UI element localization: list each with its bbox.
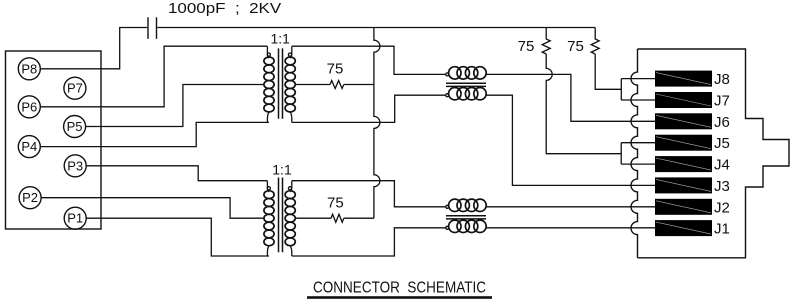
resistor R4 75 [331, 214, 344, 222]
svg-text:1:1: 1:1 [272, 162, 292, 178]
svg-text:J5: J5 [714, 135, 730, 152]
svg-text:1000pF ; 2KV: 1000pF ; 2KV [168, 1, 282, 17]
svg-text:J7: J7 [714, 93, 730, 110]
transformer T2 [264, 178, 295, 257]
contact J5 [655, 135, 730, 153]
choke L1 common mode [446, 67, 486, 100]
label R4 value 75 [327, 195, 344, 212]
wire R3 to center tap rail [344, 84, 374, 86]
pin P3 [64, 155, 86, 177]
svg-text:75: 75 [327, 195, 344, 212]
svg-text:CONNECTOR SCHEMATIC: CONNECTOR SCHEMATIC [313, 280, 486, 297]
wire P6 to T1 primary top [40, 46, 267, 107]
wire choke L2 bottom to J1 [486, 227, 655, 229]
wire P2 to T2 primary center tap [41, 198, 264, 219]
svg-text:J6: J6 [714, 114, 730, 131]
wire T2 secondary top to choke L2 top [292, 181, 446, 207]
svg-text:P2: P2 [22, 190, 38, 205]
contact J6 [655, 113, 730, 131]
transformer T2 label 1:1 [272, 162, 292, 178]
wire P8 to capacitor C1 [40, 28, 147, 69]
label C1 value [168, 1, 282, 17]
svg-text:J8: J8 [714, 71, 730, 88]
contact J1 [655, 220, 730, 238]
pin P5 [64, 116, 86, 138]
svg-text:75: 75 [518, 38, 535, 55]
contact J8 [655, 71, 730, 89]
pin P4 [18, 136, 40, 158]
wire choke L1 top to J6 [486, 74, 655, 121]
wire R2 to J8 J7 fork [595, 54, 655, 100]
wire P3 to T2 primary top [86, 166, 267, 181]
right connector left edge with hops [631, 49, 638, 258]
transformer T1 [264, 46, 295, 122]
resistor R2 75 vertical [591, 28, 599, 55]
svg-text:J2: J2 [714, 199, 730, 216]
wire R4 to center tap rail [344, 217, 374, 219]
svg-text:P4: P4 [21, 139, 37, 154]
svg-text:P3: P3 [67, 158, 83, 173]
contact J3 [655, 177, 730, 195]
pin P1 [64, 207, 86, 229]
pin P7 [64, 77, 86, 99]
title underline [307, 296, 492, 299]
svg-text:P8: P8 [21, 61, 37, 76]
svg-text:P6: P6 [21, 99, 37, 114]
wire T1 secondary center tap to R3 [295, 84, 330, 86]
svg-text:75: 75 [567, 38, 584, 55]
right connector outline top right bottom [638, 49, 790, 258]
capacitor C1 1000pF 2KV [148, 17, 157, 39]
center tap rail with hops [374, 28, 380, 219]
choke L2 common mode [446, 199, 486, 232]
pin P6 [18, 96, 40, 118]
svg-text:J1: J1 [714, 221, 730, 238]
title CONNECTOR SCHEMATIC [313, 280, 486, 297]
svg-text:P7: P7 [67, 81, 83, 96]
svg-text:J4: J4 [714, 157, 730, 174]
label R2 value 75 [567, 38, 584, 55]
svg-text:P5: P5 [67, 119, 83, 134]
wire choke L2 top to J2 [486, 206, 655, 208]
pin P2 [19, 187, 41, 209]
wire T2 secondary center tap to R4 [295, 217, 331, 219]
transformer T1 label 1:1 [270, 31, 290, 47]
wire T2 secondary bottom to choke L2 bottom [292, 228, 446, 256]
wire P1 to T2 primary bottom [86, 218, 269, 256]
wire top rail C1 to R2 [157, 27, 595, 29]
resistor R3 75 [330, 81, 344, 89]
wire P4 to T1 primary bottom [40, 122, 269, 146]
contact J4 [655, 156, 730, 174]
wire P5 to T1 primary center tap [86, 85, 264, 127]
wire choke L1 bottom to J3 [486, 95, 655, 185]
svg-text:P1: P1 [67, 211, 83, 226]
wire R1 to J5 J4 fork with hop [546, 54, 655, 164]
svg-text:1:1: 1:1 [270, 31, 290, 47]
left connector box P [6, 51, 102, 229]
pin P8 [18, 58, 40, 80]
contact J7 [655, 92, 730, 110]
svg-text:75: 75 [327, 61, 344, 78]
label R1 value 75 [518, 38, 535, 55]
contact J2 [655, 199, 730, 217]
label R3 value 75 [327, 61, 344, 78]
resistor R1 75 vertical [542, 28, 550, 55]
wire T1 secondary bottom to choke L1 bottom [292, 95, 446, 122]
svg-text:J3: J3 [714, 178, 730, 195]
wire T1 secondary top to choke L1 top [292, 46, 446, 74]
